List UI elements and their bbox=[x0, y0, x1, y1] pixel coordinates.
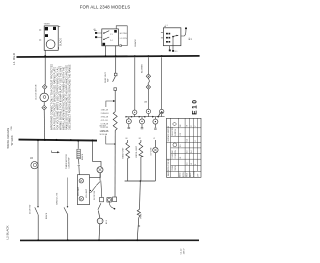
svg-text:C8B: C8B bbox=[11, 126, 13, 131]
svg-text:BK: BK bbox=[126, 138, 129, 140]
svg-text:1 3: 1 3 bbox=[110, 34, 113, 36]
svg-text:E10: E10 bbox=[192, 98, 199, 114]
svg-text:PUSH: PUSH bbox=[172, 165, 174, 170]
svg-text:BK: BK bbox=[180, 124, 182, 127]
svg-text:3-5: 3-5 bbox=[180, 144, 182, 147]
svg-text:A5: A5 bbox=[144, 101, 147, 104]
svg-text:HI 2350: HI 2350 bbox=[120, 33, 128, 35]
svg-text:R: R bbox=[191, 125, 193, 127]
svg-text:FUSE: FUSE bbox=[141, 213, 143, 219]
svg-text:2-3: 2-3 bbox=[180, 133, 182, 136]
svg-text:BROIL LITE: BROIL LITE bbox=[56, 192, 58, 204]
svg-text:L2: L2 bbox=[191, 163, 193, 165]
svg-text:OV LITE: OV LITE bbox=[151, 147, 153, 156]
svg-text:BLACK: BLACK bbox=[60, 38, 63, 46]
svg-text:BLACK: BLACK bbox=[134, 39, 137, 47]
svg-text:L1: L1 bbox=[191, 37, 193, 40]
svg-text:SEE NOTE: SEE NOTE bbox=[100, 131, 110, 133]
svg-text:L1: L1 bbox=[166, 25, 168, 27]
svg-text:WIRING DIAGRAM: WIRING DIAGRAM bbox=[7, 128, 10, 149]
svg-text:L1: L1 bbox=[180, 157, 182, 159]
svg-text:TIME: TIME bbox=[187, 172, 189, 177]
svg-text:SWITCH: SWITCH bbox=[175, 128, 177, 135]
svg-text:4 YL-18: 4 YL-18 bbox=[101, 120, 109, 122]
svg-text:40W LAMP: 40W LAMP bbox=[77, 186, 80, 196]
svg-text:CLEAN: CLEAN bbox=[193, 171, 196, 177]
svg-text:BAKE: BAKE bbox=[179, 172, 182, 177]
svg-text:2-6: 2-6 bbox=[187, 150, 189, 153]
svg-text:BLOWER: BLOWER bbox=[142, 64, 144, 73]
svg-text:DISCONNECT POWER BEFORE SERVIC: DISCONNECT POWER BEFORE SERVICING THE RA… bbox=[68, 64, 71, 130]
svg-text:CLOCK MOTOR: CLOCK MOTOR bbox=[36, 84, 38, 100]
svg-text:BROIL: BROIL bbox=[183, 172, 185, 177]
svg-text:FOR ALL 2348 MODELS: FOR ALL 2348 MODELS bbox=[80, 5, 130, 10]
svg-text:LO 1250: LO 1250 bbox=[120, 38, 129, 40]
svg-text:A5: A5 bbox=[30, 157, 34, 160]
svg-text:SW: SW bbox=[107, 79, 109, 82]
svg-text:BAKE BROIL TIME BR: BAKE BROIL TIME BR bbox=[167, 158, 170, 176]
svg-text:40W LAMP: 40W LAMP bbox=[85, 188, 88, 198]
svg-text:BLACK: BLACK bbox=[81, 153, 84, 160]
svg-text:3-5: 3-5 bbox=[187, 162, 189, 165]
svg-text:“W” MAIN: “W” MAIN bbox=[11, 135, 14, 146]
svg-text:2 WH-18: 2 WH-18 bbox=[101, 113, 110, 115]
svg-text:2: 2 bbox=[195, 141, 197, 142]
svg-text:L1-L2: L1-L2 bbox=[181, 248, 183, 254]
svg-text:L1 RED: L1 RED bbox=[12, 52, 16, 65]
svg-text:1-4: 1-4 bbox=[191, 150, 193, 153]
svg-text:W: W bbox=[187, 125, 189, 127]
svg-text:TIMER: TIMER bbox=[44, 24, 51, 26]
svg-text:OFF: OFF bbox=[198, 174, 200, 177]
svg-text:DOOR SW: DOOR SW bbox=[94, 191, 96, 200]
svg-text:CLEAN SW: CLEAN SW bbox=[68, 158, 71, 169]
svg-text:L2 BLACK: L2 BLACK bbox=[5, 225, 9, 239]
svg-text:208 V: 208 V bbox=[184, 248, 186, 254]
svg-text:A5: A5 bbox=[94, 28, 96, 31]
svg-text:BK W R: BK W R bbox=[100, 126, 107, 128]
svg-text:1 BK-18: 1 BK-18 bbox=[101, 110, 109, 112]
svg-text:W-14 GA: W-14 GA bbox=[100, 133, 108, 136]
svg-text:W: W bbox=[153, 138, 155, 140]
svg-text:DOOR SW: DOOR SW bbox=[29, 205, 31, 214]
svg-text:Y: Y bbox=[195, 125, 197, 127]
svg-text:SURFACE UNIT SW: SURFACE UNIT SW bbox=[167, 126, 170, 142]
svg-text:1: 1 bbox=[195, 164, 197, 165]
svg-text:POSITION: POSITION bbox=[175, 150, 177, 159]
svg-text:2 4: 2 4 bbox=[110, 40, 113, 42]
svg-text:BROIL UNIT: BROIL UNIT bbox=[136, 145, 138, 157]
svg-text:3 RD-18: 3 RD-18 bbox=[101, 117, 109, 119]
svg-text:BAKE UNIT: BAKE UNIT bbox=[122, 147, 125, 159]
svg-text:A1 B: A1 B bbox=[105, 219, 108, 224]
svg-text:BR: BR bbox=[139, 138, 142, 140]
svg-text:1-4: 1-4 bbox=[187, 139, 189, 142]
svg-text:BLACK: BLACK bbox=[45, 212, 48, 219]
svg-text:NO: NO bbox=[175, 51, 178, 53]
svg-text:SELECTOR: SELECTOR bbox=[172, 126, 174, 136]
svg-text:OVEN SW: OVEN SW bbox=[172, 150, 174, 158]
svg-text:TURN: TURN bbox=[175, 165, 177, 170]
